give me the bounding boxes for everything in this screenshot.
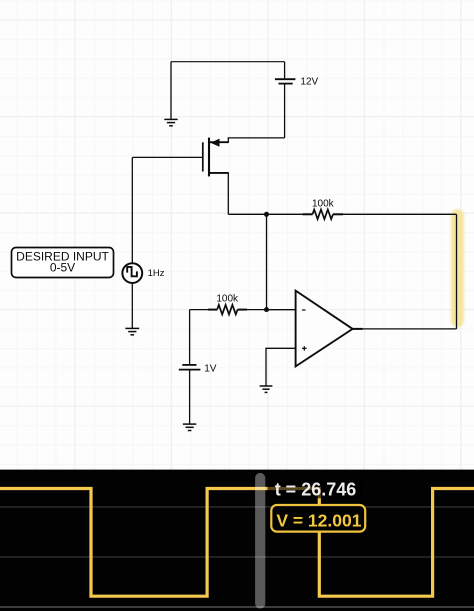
label DESIRED INPUT (12, 248, 114, 278)
scope trace (0, 489, 474, 597)
node junction top (264, 212, 269, 217)
readout t background (268, 481, 363, 499)
op-amp minus sign (302, 309, 306, 311)
wire op-amp output (353, 328, 457, 330)
battery V1 12V (275, 62, 296, 138)
transistor M1 PMOS (132, 138, 284, 215)
node junction bottom (264, 307, 269, 312)
wire minus input (267, 309, 296, 311)
ground G1 (164, 62, 177, 126)
resistor R1 100k (267, 210, 457, 220)
source V2 square-wave (122, 157, 142, 328)
ground G4 (260, 386, 273, 392)
op-amp U1 (296, 291, 353, 367)
svg-text:100k: 100k (216, 293, 239, 304)
svg-text:t = 26.746: t = 26.746 (275, 480, 357, 500)
wire node column (266, 214, 268, 309)
wire plus input (266, 348, 296, 385)
svg-text:1Hz: 1Hz (148, 268, 165, 279)
svg-text:0-5V: 0-5V (50, 261, 75, 275)
resistor R2 100k (190, 305, 296, 315)
battery V3 1V (179, 310, 201, 424)
wire feedback right vertical (456, 214, 458, 329)
schematic background (0, 0, 474, 470)
scope cursor (255, 473, 265, 609)
highlighted net (yellow) (451, 209, 464, 327)
svg-text:12V: 12V (300, 76, 318, 87)
svg-text:100k: 100k (312, 198, 335, 209)
ground G2 (125, 328, 139, 334)
ground G3 (183, 424, 196, 430)
op-amp plus sign (302, 346, 307, 351)
scope gridlines (0, 507, 474, 557)
grid major lines (0, 0, 474, 470)
wire top rail (171, 61, 285, 63)
svg-text:1V: 1V (204, 364, 217, 375)
wire drain to node (228, 213, 266, 215)
readout V box (271, 505, 365, 532)
svg-text:V = 12.001: V = 12.001 (276, 511, 361, 531)
scope background (0, 470, 474, 611)
